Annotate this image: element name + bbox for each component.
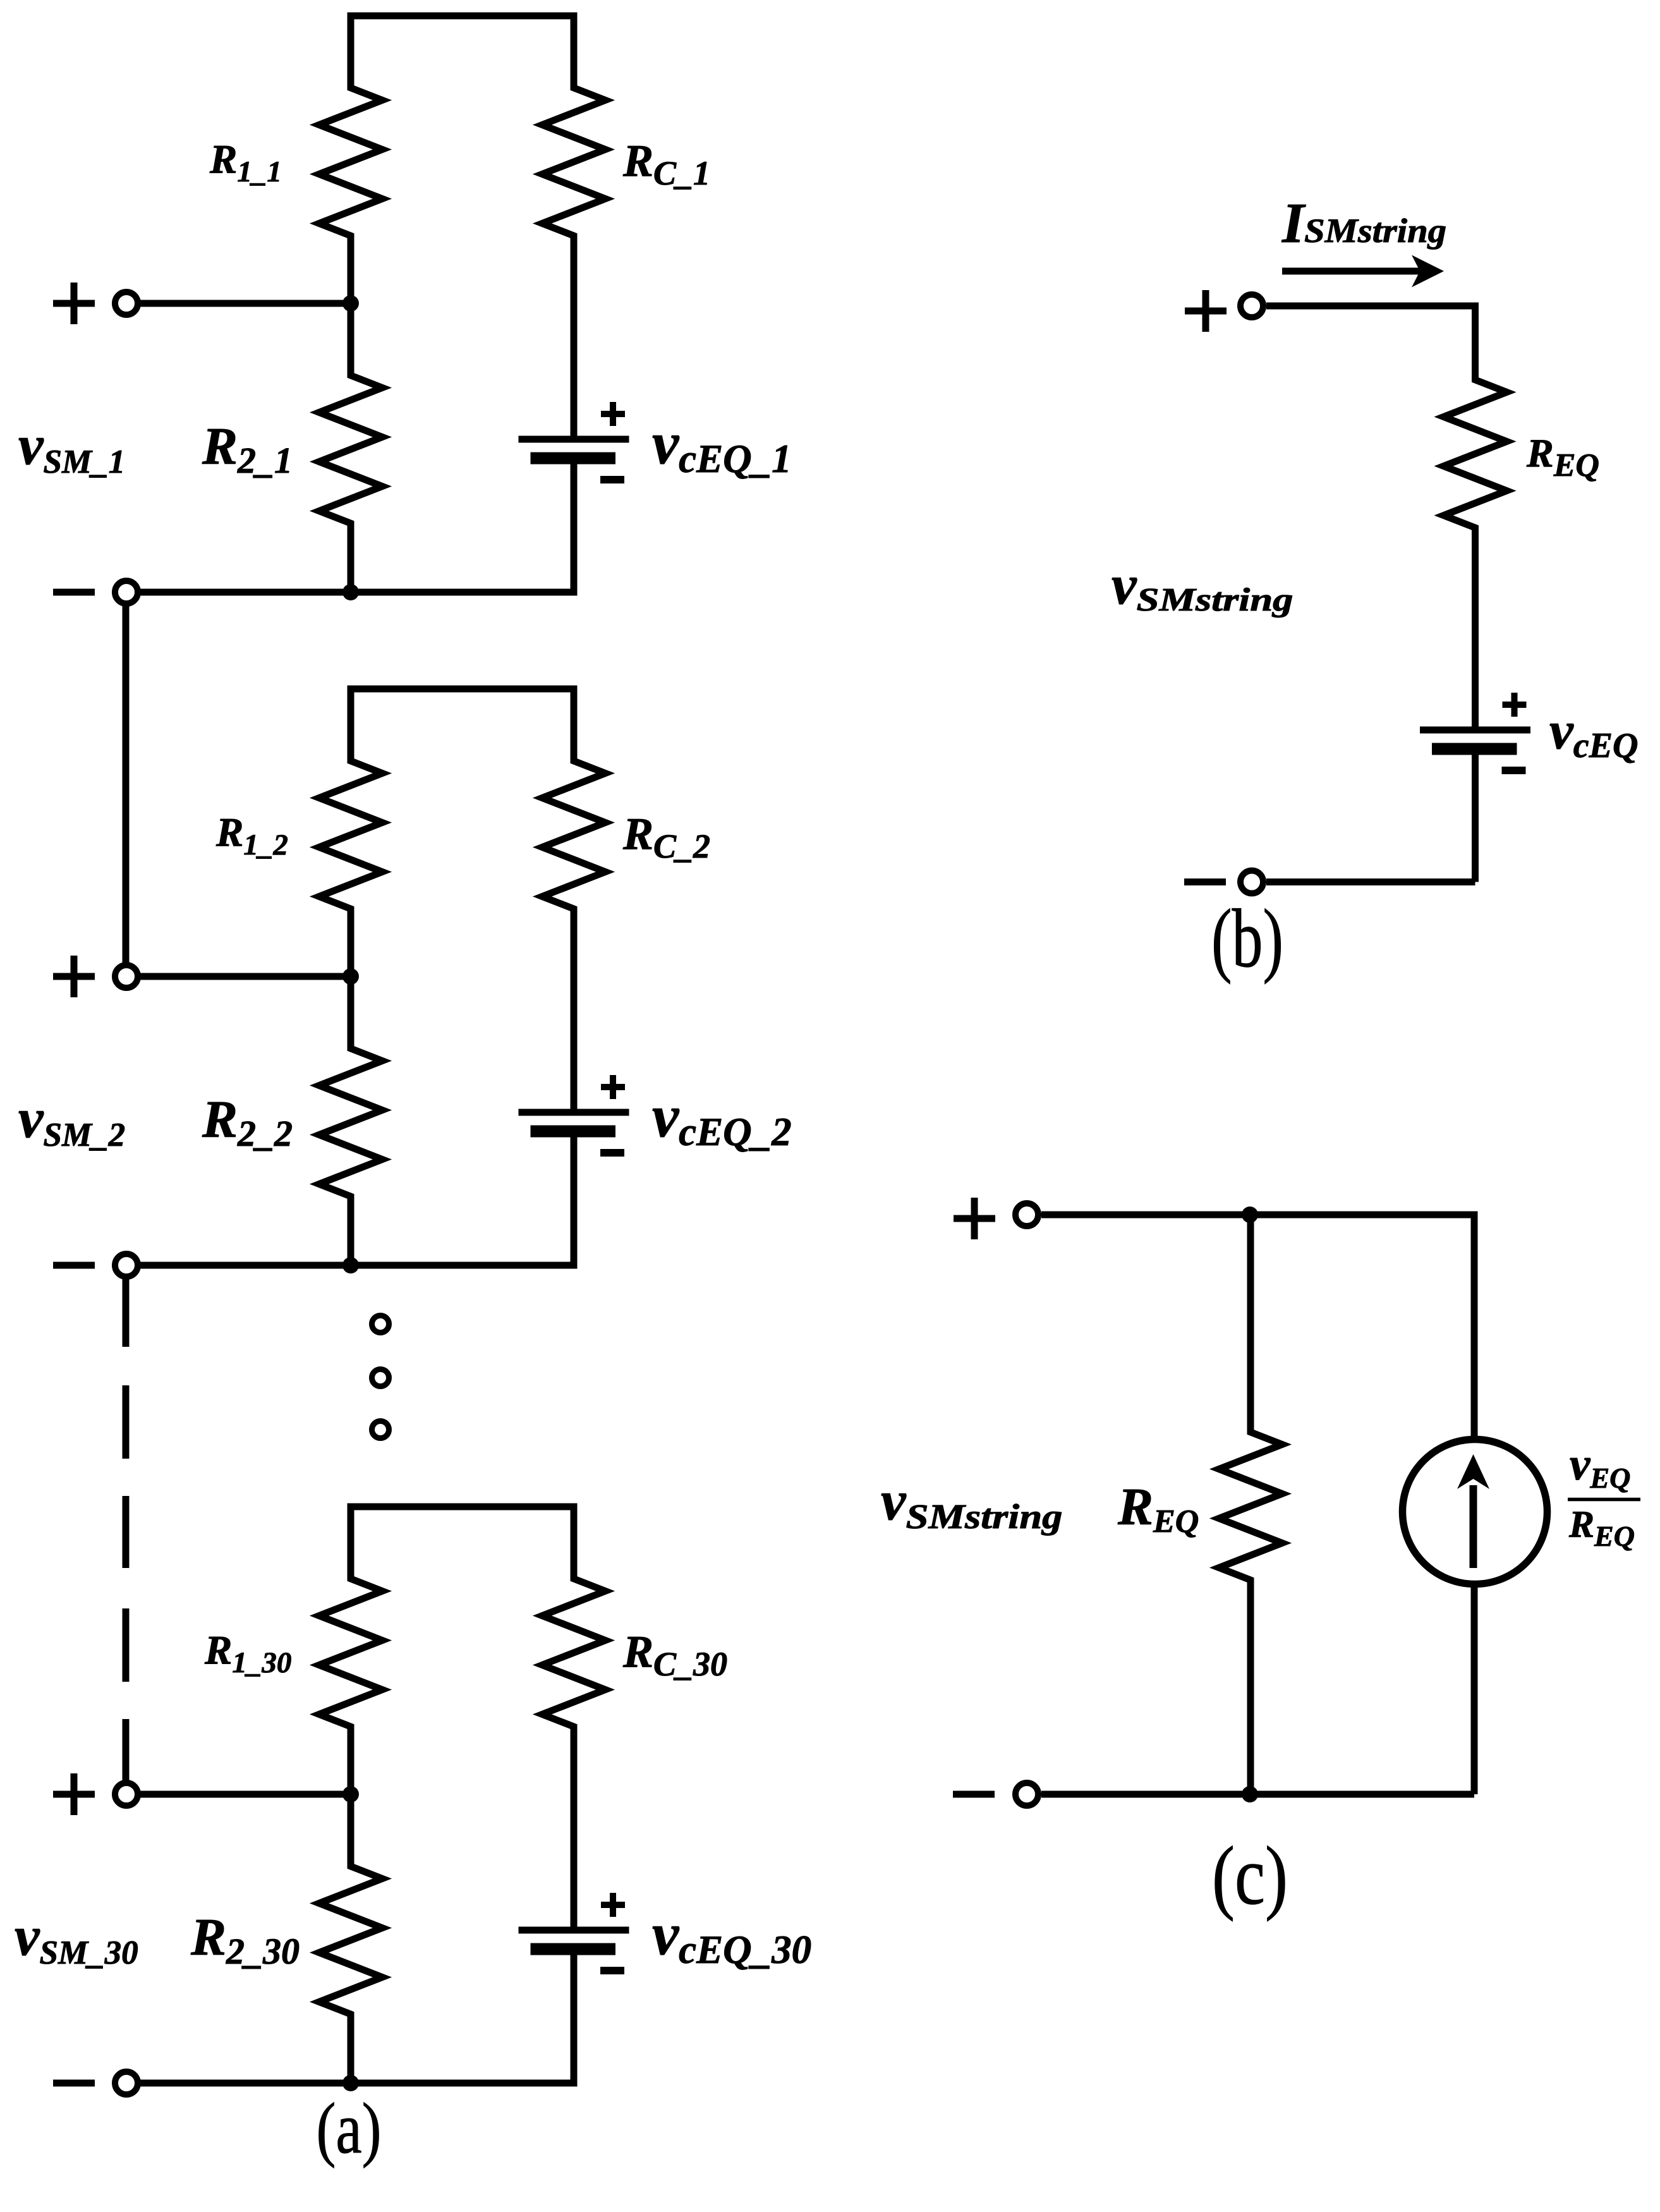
svg-text:(a): (a) — [317, 2088, 382, 2168]
svg-text:REQ: REQ — [1117, 1478, 1199, 1540]
svg-text:vSM_1: vSM_1 — [18, 415, 125, 480]
svg-text:RC_1: RC_1 — [622, 136, 710, 193]
svg-text:R1_30: R1_30 — [204, 1628, 291, 1680]
svg-text:vcEQ_2: vcEQ_2 — [652, 1083, 792, 1154]
svg-text:R2_1: R2_1 — [202, 417, 293, 481]
svg-text:vSMstring: vSMstring — [1112, 554, 1293, 618]
svg-text:vcEQ_1: vcEQ_1 — [652, 410, 792, 481]
svg-text:REQ: REQ — [1568, 1504, 1635, 1552]
svg-text:R2_30: R2_30 — [190, 1908, 300, 1972]
svg-text:R1_1: R1_1 — [209, 137, 282, 189]
svg-text:vSMstring: vSMstring — [881, 1470, 1063, 1536]
svg-text:(b): (b) — [1211, 892, 1283, 985]
svg-text:vSM_2: vSM_2 — [18, 1088, 125, 1153]
svg-text:R1_2: R1_2 — [215, 810, 288, 862]
svg-text:R2_2: R2_2 — [202, 1090, 293, 1154]
svg-text:RC_30: RC_30 — [622, 1627, 727, 1684]
svg-text:vEQ: vEQ — [1570, 1438, 1630, 1494]
svg-text:vcEQ_30: vcEQ_30 — [652, 1900, 811, 1972]
svg-text:(c): (c) — [1212, 1829, 1288, 1922]
svg-text:vSM_30: vSM_30 — [15, 1905, 138, 1971]
svg-text:REQ: REQ — [1526, 430, 1599, 483]
svg-text:RC_2: RC_2 — [622, 809, 710, 866]
svg-text:vcEQ: vcEQ — [1549, 701, 1638, 765]
svg-text:ISMstring: ISMstring — [1281, 192, 1446, 255]
